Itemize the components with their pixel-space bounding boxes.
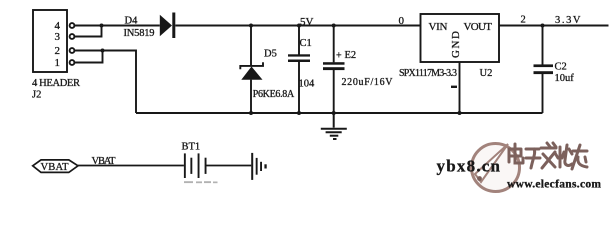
svg-text:BT1: BT1 (182, 142, 201, 153)
svg-text:5V: 5V (300, 16, 314, 28)
U2 pin1 dash (451, 86, 457, 88)
svg-text:IN5819: IN5819 (124, 28, 155, 39)
junction C1 top (5V node) (297, 24, 301, 28)
junction C2 top (3.3V node) (541, 24, 545, 28)
pin 4 circle (70, 23, 75, 28)
svg-text:C1: C1 (300, 38, 312, 49)
junction pin4/pin3 (100, 24, 104, 28)
ground symbol (power gnd under E2) (321, 113, 347, 139)
watermark elecfans logo circle with pencil (472, 144, 520, 192)
wire C2 stem (542, 26, 544, 114)
char you (572, 145, 587, 169)
pin 1 circle (70, 60, 75, 65)
junction E2/ground (332, 111, 336, 115)
svg-text:E2: E2 (345, 50, 357, 61)
svg-text:1: 1 (55, 57, 61, 69)
wire D5 stem top (250, 26, 252, 66)
pin 2 circle (70, 48, 75, 53)
power port VBAT flag (33, 160, 78, 173)
wire pin1 up to pin2 net (74, 51, 102, 63)
ground (sideways) right of battery (251, 153, 266, 180)
wire pin2 to corner (74, 51, 136, 114)
diode D4 (160, 13, 176, 39)
pin 3 circle (70, 34, 75, 39)
regulator U2 box (421, 14, 500, 62)
watermark chinese characters (stylized strokes) (509, 143, 587, 169)
junction C1 bottom (297, 111, 301, 115)
svg-text:VBAT: VBAT (41, 162, 70, 173)
svg-text:3: 3 (55, 31, 61, 43)
svg-text:2: 2 (521, 14, 526, 25)
svg-text:VIN: VIN (429, 21, 448, 33)
svg-text:0: 0 (399, 15, 405, 27)
wire VBAT flag to battery (78, 165, 184, 167)
faint cut text under battery (184, 181, 218, 183)
svg-text:4 HEADER: 4 HEADER (32, 78, 80, 89)
svg-text:+: + (336, 51, 342, 62)
char shao (555, 145, 572, 167)
wire pin3 up to pin4 net (74, 26, 101, 37)
svg-text:SPX1117M3-3.3: SPX1117M3-3.3 (399, 68, 457, 79)
svg-text:C2: C2 (555, 62, 567, 73)
svg-text:220uF/16V: 220uF/16V (342, 77, 394, 88)
svg-text:104: 104 (299, 79, 316, 90)
wire battery to ground (207, 165, 252, 167)
wire pin4 to D4 anode (74, 25, 159, 27)
junction pin2/pin1 (101, 49, 105, 53)
svg-text:VOUT: VOUT (464, 21, 493, 33)
svg-text:J2: J2 (32, 90, 41, 101)
junction E2 top (332, 24, 336, 28)
svg-text:3.3V: 3.3V (555, 15, 581, 26)
wire E2 stem (333, 26, 335, 114)
junction D5 top (249, 24, 253, 28)
svg-text:D4: D4 (125, 16, 139, 27)
wire D4 cathode to U2 VIN (5V / 0 net) (175, 25, 420, 27)
battery BT1 plates (184, 153, 207, 178)
capacitor E2 plates (323, 62, 345, 70)
wire C1 stem (298, 26, 300, 114)
svg-text:10uf: 10uf (555, 73, 575, 84)
bottom ground rail (136, 112, 543, 114)
capacitor C2 plates (534, 64, 554, 74)
svg-text:ybx8.cn: ybx8.cn (437, 157, 501, 176)
capacitor C1 plates (288, 54, 310, 62)
svg-text:D5: D5 (264, 49, 277, 60)
wire D5 stem bottom (250, 80, 252, 113)
svg-text:P6KE6.8A: P6KE6.8A (253, 89, 295, 100)
char fa (541, 143, 556, 168)
svg-text:2: 2 (55, 45, 61, 57)
char zi (526, 149, 540, 168)
junction D5 bottom (249, 111, 253, 115)
junction U2 GND pin (458, 111, 462, 115)
wire U2 output to 3.3V (499, 25, 609, 27)
TVS diode D5 (240, 62, 263, 80)
svg-text:GND: GND (450, 31, 462, 58)
svg-text:www.elecfans.com: www.elecfans.com (507, 179, 601, 191)
wire U2 GND pin (459, 62, 461, 113)
connector J2 box (33, 10, 67, 72)
svg-text:U2: U2 (480, 68, 493, 79)
char dian (509, 144, 523, 163)
